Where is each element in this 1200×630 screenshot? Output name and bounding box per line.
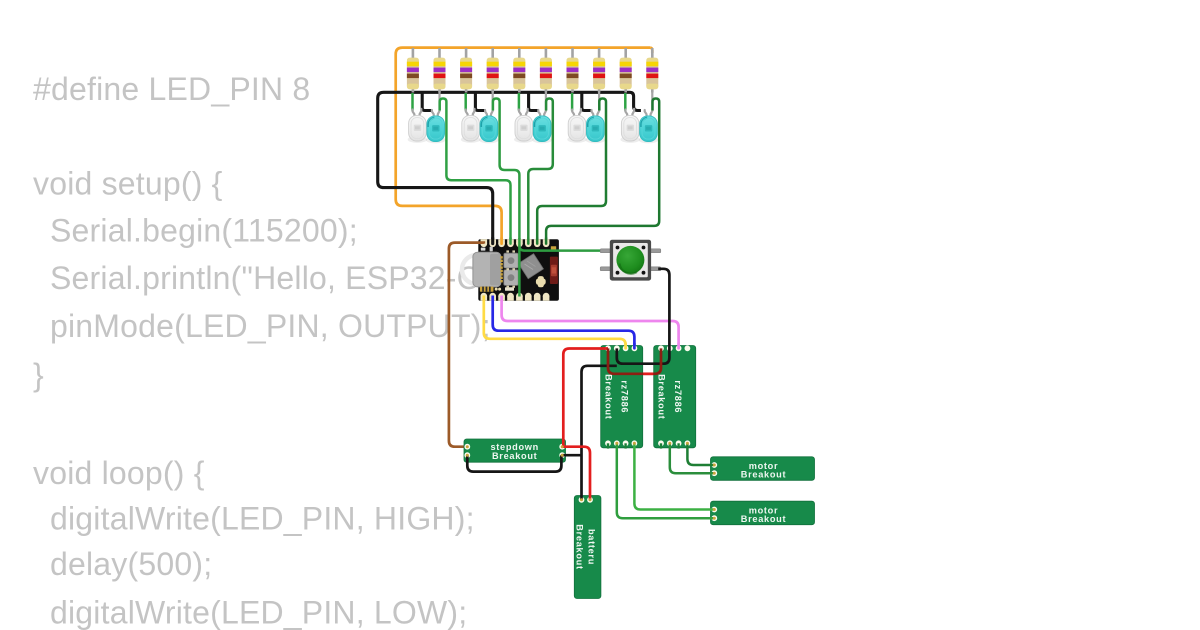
LED pair4 leads (572, 93, 599, 119)
wire green LED pair4 to ESP pin7 (537, 99, 606, 244)
wire brown ESP32 pin1 to stepdown (449, 243, 484, 447)
pushbutton SW1 (600, 240, 660, 281)
wire green rz7886 B pin4 to motor1 pin1 (687, 443, 714, 465)
wire orange rail right end drop (650, 48, 652, 53)
wire green LED pair2 to ESP pin5 (493, 99, 520, 297)
code line 2 (33, 166, 223, 202)
gold pads on wired pins (466, 442, 716, 520)
wire green over ESP32 to pin5 (518, 238, 521, 297)
wire red rz7886 A pin1 to B pin1 (over boards) (608, 348, 661, 373)
wire black pushbutton to rz7886 pins2 (617, 269, 670, 364)
wire black ground bus (378, 92, 641, 243)
stepdown breakout (464, 439, 566, 462)
ESP32-C3 board U1 (473, 239, 559, 301)
code line 4 (50, 260, 480, 296)
svg-text:Breakout: Breakout (657, 374, 667, 419)
wire black bus jog pair3 (529, 92, 538, 112)
svg-text:delay(500);: delay(500); (50, 546, 212, 582)
resistor R8 (593, 48, 605, 93)
wire yellow ESP32 to rz7886 A pin3 (484, 296, 626, 349)
code line 8 (50, 501, 475, 537)
wire black bus jog pair4 (582, 92, 591, 112)
USB ghost plug outline (462, 255, 491, 284)
svg-text:digitalWrite(LED_PIN, HIGH);: digitalWrite(LED_PIN, HIGH); (50, 501, 475, 537)
rz7886 breakout B (654, 346, 696, 448)
resistor R6 (540, 48, 552, 93)
svg-text:pinMode(LED_PIN, OUTPUT);: pinMode(LED_PIN, OUTPUT); (50, 308, 491, 344)
wire blue ESP32 to rz7886 A pin4 (493, 296, 635, 349)
svg-text:rz7886: rz7886 (620, 380, 630, 413)
wire violet ESP32 to rz7886 B pin3 (502, 296, 679, 349)
svg-text:digitalWrite(LED_PIN, LOW);: digitalWrite(LED_PIN, LOW); (50, 595, 467, 630)
board pin holes (464, 345, 717, 521)
svg-text:Serial.println("Hello, ESP32-C: Serial.println("Hello, ESP32-C (50, 260, 480, 296)
wire green rz7886 B pin2 to motor1 pin2 (670, 443, 715, 473)
wire black stepdown loop (467, 455, 561, 471)
wire green stub pair3 (518, 93, 521, 111)
code line 9 (50, 546, 212, 582)
LED pair3 leads (519, 93, 546, 119)
resistor R5 (513, 48, 525, 93)
code line 10 (50, 595, 467, 630)
resistor R10 (646, 48, 658, 93)
wire green LED pair1 to ESP pin4 (440, 99, 511, 244)
wire tips into ESP32 top pins (493, 238, 546, 244)
LED D8 cyan (586, 116, 606, 143)
LED pair5 leads (625, 93, 652, 119)
code line 1 (33, 71, 310, 107)
LED D4 cyan (479, 116, 499, 143)
LED D5 white (514, 115, 534, 142)
wire green ESP32 to pushbutton (519, 246, 603, 251)
wire red stepdown to batteru (562, 447, 590, 500)
LED D7 white (567, 115, 587, 142)
wire green stub pair5 (624, 93, 627, 111)
wire tips into rz7886 top pins (626, 344, 679, 349)
wire black bus jog pair2 (475, 92, 484, 112)
LED pair2 leads (466, 93, 493, 119)
svg-text:batteru: batteru (587, 529, 597, 565)
svg-text:void loop() {: void loop() { (33, 455, 205, 491)
wire black stepdown to batteru line (562, 454, 581, 457)
code line 6 (33, 357, 44, 393)
motor breakout 1 (711, 457, 815, 481)
wire green stub pair2 (464, 93, 467, 111)
resistor R1 (407, 48, 419, 93)
wire green LED pair3 to ESP pin6 (528, 99, 553, 244)
wire green stub pair1 (411, 93, 414, 111)
svg-text:void setup() {: void setup() { (33, 166, 223, 202)
svg-text:Breakout: Breakout (603, 374, 613, 419)
wire green LED pair5 to ESP pin8 (546, 99, 659, 244)
svg-text:Breakout: Breakout (741, 514, 786, 524)
resistor R9 (620, 48, 632, 93)
LED D10 cyan (639, 116, 659, 143)
resistor R4 (487, 48, 499, 93)
LED D9 white (620, 115, 640, 142)
resistor R7 (567, 48, 579, 93)
svg-text:#define LED_PIN 8: #define LED_PIN 8 (33, 71, 310, 107)
LED D3 white (461, 115, 481, 142)
LED D6 cyan (532, 116, 552, 143)
wire green stub pair4 (571, 93, 574, 111)
svg-text:}: } (33, 357, 44, 393)
svg-text:Serial.begin(115200);: Serial.begin(115200); (50, 213, 358, 249)
batteru breakout (574, 496, 601, 599)
resistor R3 (460, 48, 472, 93)
LED pair1 leads (413, 93, 440, 119)
wire black batteru to rz7886 A pin2 (582, 366, 617, 500)
code line 5 (50, 308, 491, 344)
LED D1 white (408, 115, 428, 142)
wire orange power rail (396, 48, 651, 243)
wire green rz7886 A pin2 to motor2 pin2 (617, 443, 715, 518)
code line 3 (50, 213, 358, 249)
wire green stubs rz bottom pins (608, 443, 679, 448)
wire green rz7886 A pin4 to motor2 pin1 (634, 443, 714, 509)
rz7886 breakout A (601, 346, 643, 448)
svg-text:Breakout: Breakout (492, 451, 537, 461)
svg-text:Breakout: Breakout (741, 470, 786, 480)
wire black bus jog pair1 (422, 92, 431, 112)
resistor R2 (434, 48, 446, 93)
svg-text:Breakout: Breakout (574, 524, 584, 569)
LED D2 cyan (426, 116, 446, 143)
code line 7 (33, 455, 205, 491)
motor breakout 2 (711, 501, 815, 525)
svg-text:rz7886: rz7886 (673, 380, 683, 413)
wire red stepdown to rz7886 A pin1 (563, 349, 608, 447)
